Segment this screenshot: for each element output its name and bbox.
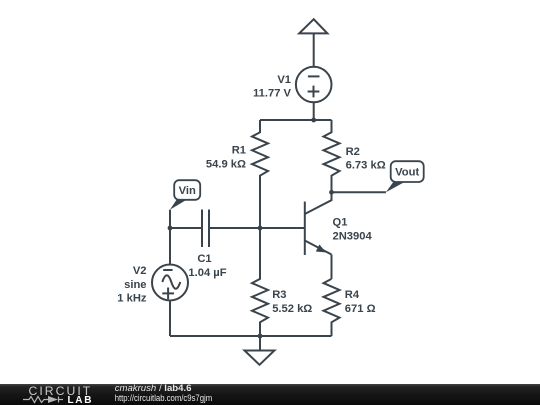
svg-text:V1: V1	[277, 74, 291, 86]
wire: C1 to base node	[209, 227, 260, 229]
node: collector junction	[329, 190, 334, 195]
ground	[245, 351, 275, 365]
voltage source V2	[152, 265, 188, 301]
svg-text:6.73 kΩ: 6.73 kΩ	[346, 160, 386, 172]
svg-text:2N3904: 2N3904	[333, 230, 373, 242]
svg-text:54.9 kΩ: 54.9 kΩ	[206, 159, 246, 171]
wire: collector junction to Vout flag	[332, 191, 386, 193]
svg-text:R4: R4	[345, 289, 360, 301]
svg-text:R1: R1	[232, 145, 246, 157]
voltage source V1	[296, 67, 332, 103]
svg-text:http://circuitlab.com/c9s7gjm: http://circuitlab.com/c9s7gjm	[115, 393, 213, 404]
power flag (VCC triangle)	[299, 19, 327, 33]
resistor R1	[252, 120, 268, 228]
svg-text:R2: R2	[346, 146, 360, 158]
wire: V1 to top rail	[313, 102, 315, 120]
wire: power flag to V1	[313, 33, 315, 67]
flag Vout	[386, 161, 424, 192]
svg-text:11.77 V: 11.77 V	[253, 88, 291, 100]
wire: V2 to bottom rail	[169, 301, 171, 337]
svg-text:R3: R3	[272, 289, 286, 301]
svg-text:Vin: Vin	[179, 185, 196, 197]
wire: input node to C1	[170, 227, 202, 229]
node: input node	[168, 226, 173, 231]
wire: Vin flag to input node	[169, 210, 171, 228]
node: ground junction	[258, 334, 263, 339]
svg-text:1 kHz: 1 kHz	[117, 293, 147, 305]
capacitor C1	[202, 210, 209, 248]
footer credits	[115, 383, 213, 404]
svg-text:1.04 µF: 1.04 µF	[188, 267, 226, 279]
wire: emitter to R4	[331, 255, 333, 279]
node: base node	[258, 226, 263, 231]
node: top rail junction	[311, 118, 316, 123]
svg-text:671 Ω: 671 Ω	[345, 303, 376, 315]
resistor R3	[252, 228, 268, 336]
resistor R4	[324, 279, 340, 336]
flag Vin	[170, 180, 200, 210]
wire: top rail	[260, 119, 332, 121]
svg-text:Vout: Vout	[395, 167, 419, 179]
svg-text:Q1: Q1	[333, 217, 348, 229]
footer bar	[0, 384, 540, 405]
svg-text:C1: C1	[197, 253, 211, 265]
svg-text:V2: V2	[133, 265, 147, 277]
CircuitLab logo	[23, 384, 93, 405]
wire: input node to V2	[169, 228, 171, 265]
svg-text:sine: sine	[124, 279, 146, 291]
wire: ground junction to ground symbol	[259, 336, 261, 351]
wire: base node to Q1 base	[260, 227, 305, 229]
svg-text:LAB: LAB	[68, 395, 94, 405]
wire: bottom rail	[170, 335, 332, 337]
resistor R2	[324, 120, 340, 192]
svg-text:5.52 kΩ: 5.52 kΩ	[272, 303, 312, 315]
transistor Q1	[305, 192, 332, 255]
